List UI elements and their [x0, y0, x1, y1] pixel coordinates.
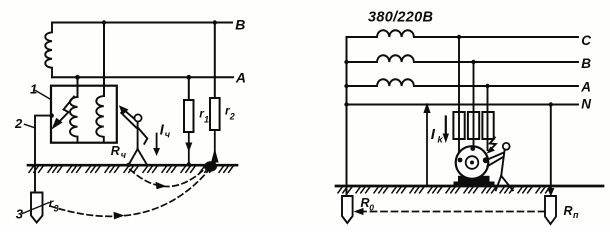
svg-text:I: I — [431, 126, 436, 143]
earth electrode 3 — [31, 193, 43, 223]
secondary winding right (inside case) — [96, 96, 104, 143]
arrow I_ч (down) — [156, 134, 158, 150]
motor base plate — [454, 182, 495, 186]
svg-text:C: C — [581, 33, 591, 48]
contact point on motor case — [483, 157, 489, 163]
arrowhead pointing at R0 — [354, 208, 364, 215]
svg-text:A: A — [235, 69, 246, 85]
node: C drop — [457, 35, 461, 39]
svg-text:ч: ч — [121, 150, 127, 160]
resistor r1 — [184, 100, 194, 132]
svg-text:п: п — [573, 210, 579, 220]
I_k return-path arrow (ground up to N) — [426, 107, 428, 186]
fuse F3 — [482, 112, 493, 139]
person (right diagram) — [486, 143, 513, 190]
ground surface (left diagram) — [28, 164, 237, 167]
fuse F2 — [468, 112, 479, 139]
resistor r2 — [210, 98, 220, 130]
svg-text:380/220В: 380/220В — [368, 9, 433, 25]
node: motor case terminal — [458, 158, 463, 163]
arrowhead into electrode Rп — [547, 188, 554, 197]
phase winding B with coil — [347, 55, 579, 62]
current entry blob at ground under r2 — [204, 161, 217, 171]
wire: r1 to ground with down arrow — [188, 132, 190, 165]
svg-text:R: R — [361, 196, 370, 210]
phase winding C with coil — [347, 30, 579, 37]
node: junction on A at x=77.5 — [75, 75, 80, 80]
motor M (electric machine) — [456, 146, 489, 179]
node: motor terminal top — [470, 146, 475, 151]
ground hatching (left) — [29, 167, 233, 173]
node: r1 at ground — [187, 162, 191, 166]
node: junction on A at x=188.8 — [186, 75, 191, 80]
node: motor terminal left — [457, 157, 462, 162]
svg-text:B: B — [581, 56, 591, 71]
node: wire 2 on case — [49, 113, 54, 118]
dashed potential arc (electrode to fault point) — [50, 171, 208, 216]
arrowhead on long arc — [114, 212, 125, 220]
svg-text:R: R — [564, 204, 573, 218]
grounding wire 2 (case to earth electrode) — [35, 116, 52, 193]
wire: drop from A to left secondary winding — [77, 77, 79, 97]
motor pedestal — [458, 176, 490, 182]
neutral star-point bus to ground — [346, 37, 348, 196]
fault current arrow (down, beside fuses) — [445, 117, 447, 135]
equipment case box (1) — [51, 86, 117, 143]
ground surface (right diagram) — [336, 185, 603, 188]
wire: line B (top phase conductor) — [52, 22, 232, 24]
svg-text:ч: ч — [165, 130, 171, 140]
svg-text:1: 1 — [204, 114, 209, 124]
wire: drop from A to fuse 3 — [487, 86, 489, 139]
person (left diagram) — [121, 113, 147, 165]
leader line for label 2 — [25, 124, 35, 127]
svg-text:k: k — [437, 135, 443, 146]
node: B drop — [471, 60, 475, 64]
wire: drop from C to fuse 1 — [458, 37, 460, 139]
earth electrode R0 (working ground) — [342, 196, 353, 223]
leader line for label 1 — [36, 91, 51, 100]
svg-text:2: 2 — [229, 111, 235, 121]
earth electrode Rп (repeated ground) — [545, 196, 556, 224]
node: N drop — [549, 102, 553, 106]
wire: neutral repeated-ground drop — [550, 105, 552, 193]
node: bus-A — [344, 84, 348, 88]
wire: fuse 2 to motor — [473, 139, 475, 148]
arrowhead on short arc — [156, 182, 167, 189]
node: bus-N — [344, 102, 348, 106]
phase winding A with coil — [347, 79, 579, 86]
node: A drop — [485, 84, 489, 88]
wire: line A (lower phase conductor) — [52, 76, 233, 78]
wire: r2 to ground with up arrow — [214, 130, 216, 164]
svg-text:A: A — [580, 80, 591, 95]
svg-text:R: R — [111, 144, 120, 158]
svg-text:N: N — [581, 96, 591, 111]
node: bus-B — [344, 60, 348, 64]
dashed link between R0 and Rп — [360, 211, 545, 213]
breakdown lightning arrow (motor case fault) — [490, 138, 496, 151]
node: junction on B at x=104 — [102, 20, 106, 24]
ground hatching (right) — [338, 187, 550, 193]
wire: drop from B to right secondary winding — [103, 23, 105, 97]
svg-text:B: B — [235, 17, 245, 33]
secondary winding left (inside case) — [70, 97, 78, 143]
svg-text:3: 3 — [54, 204, 59, 214]
wire: drop from B to fuse 2 — [473, 62, 475, 139]
node: motor top terminal — [470, 146, 475, 151]
node: junction on B at x=215 — [213, 20, 217, 24]
neutral conductor N — [347, 104, 579, 106]
wire: drop from A to resistor r1 — [188, 77, 190, 100]
dashed step-voltage arc (feet to fault point) — [130, 169, 205, 187]
wire: drop from B to resistor r2 — [214, 23, 216, 99]
fuse F1 — [453, 112, 464, 139]
breakdown lightning arrow (winding to case) — [57, 97, 75, 125]
transformer primary winding (left coil between B and A) — [45, 23, 52, 78]
leader line for label 3 — [23, 203, 50, 214]
wire: fuse 3 down — [487, 139, 489, 150]
wire: fuse 1 to motor — [458, 139, 460, 158]
svg-text:2: 2 — [14, 116, 23, 131]
node: person foot at ground — [127, 163, 131, 167]
touch arrow (hand to case) — [123, 109, 134, 119]
svg-text:1: 1 — [30, 81, 37, 96]
